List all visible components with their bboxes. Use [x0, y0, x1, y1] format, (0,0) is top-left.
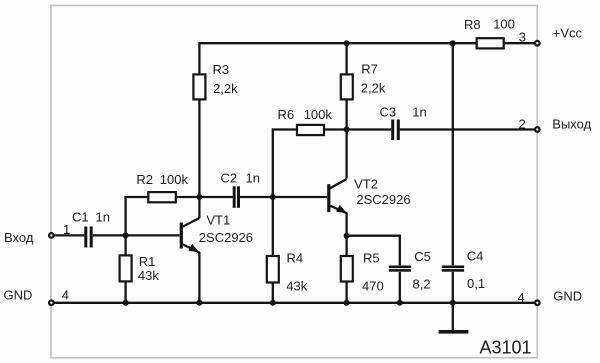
pin 2 terminal circle	[535, 127, 540, 132]
svg-text:R4: R4	[287, 251, 304, 266]
junction dot R5 ground	[344, 300, 350, 306]
junction dot R3/R2/C2 collector node	[196, 194, 202, 200]
resistor R6	[297, 125, 324, 135]
junction dot R4 ground	[270, 300, 276, 306]
svg-text:C3: C3	[380, 104, 397, 119]
svg-text:2SC2926: 2SC2926	[199, 230, 253, 245]
wire: R1 bias vertical	[124, 196, 126, 303]
pin 4 left terminal circle	[49, 301, 54, 306]
wire: C4 branch from Vcc rail	[452, 42, 454, 265]
junction dot R1 ground	[123, 300, 129, 306]
capacitor C4	[442, 266, 464, 272]
resistor R5	[341, 256, 353, 282]
wire: GND bottom rail	[51, 302, 537, 304]
wire: C5 bottom lead	[399, 272, 401, 303]
wire: +Vcc top rail	[199, 42, 537, 44]
wire: VT1 emitter vertical	[198, 252, 200, 303]
pin 3 terminal circle	[535, 41, 540, 46]
svg-text:R6: R6	[278, 107, 295, 122]
pin 1 terminal circle	[49, 233, 54, 238]
junction dot C4 ground	[450, 300, 456, 306]
svg-text:2,2k: 2,2k	[361, 81, 386, 96]
junction dot R7 top rail	[344, 40, 350, 46]
capacitor C5	[389, 266, 411, 272]
svg-text:8,2: 8,2	[413, 277, 431, 292]
svg-text:R1: R1	[139, 254, 156, 269]
wire: emitter to C5 jog	[347, 236, 400, 266]
svg-text:R3: R3	[213, 62, 230, 77]
svg-text:1n: 1n	[246, 171, 260, 186]
svg-text:C5: C5	[414, 249, 431, 264]
resistor R4	[267, 256, 279, 283]
svg-text:VT2: VT2	[354, 177, 378, 192]
svg-text:R8: R8	[464, 17, 481, 32]
svg-text:100k: 100k	[160, 172, 189, 187]
svg-text:GND: GND	[4, 288, 33, 303]
capacitor C3	[391, 120, 400, 141]
svg-text:C1: C1	[72, 209, 89, 224]
transistor VT1	[180, 218, 200, 253]
junction dot input/R1/R2 node	[123, 232, 129, 238]
junction dot VT1 emitter ground	[196, 300, 202, 306]
svg-text:1: 1	[63, 222, 70, 237]
wire: VT2 emitter vertical and R5 branch	[345, 213, 347, 303]
svg-text:Вход: Вход	[4, 230, 34, 245]
wire: C2 coupling line to VT2 base	[199, 196, 327, 198]
ground symbol	[439, 330, 469, 334]
svg-text:100: 100	[493, 16, 515, 31]
junction dot C2/R4/R6 base node	[270, 194, 276, 200]
resistor R3	[193, 74, 205, 99]
junction dot R7/R6/C3 collector node	[344, 127, 350, 133]
svg-text:Выход: Выход	[552, 117, 591, 132]
pin 4 right terminal circle	[535, 301, 540, 306]
svg-text:C2: C2	[221, 171, 238, 186]
transistor VT2	[327, 179, 347, 213]
svg-text:1n: 1n	[96, 209, 110, 224]
junction dot R8/C4 top rail	[450, 40, 456, 46]
wire: input net horizontal	[51, 234, 180, 236]
wire: C4 bottom lead to ground symbol	[452, 272, 454, 331]
junction dot VT2 emitter/R5/C5 node	[344, 233, 350, 239]
svg-text:1n: 1n	[412, 104, 426, 119]
svg-text:R5: R5	[363, 251, 380, 266]
svg-text:+Vcc: +Vcc	[553, 26, 583, 41]
wire: R2 feedback line	[126, 196, 200, 198]
svg-text:0,1: 0,1	[467, 276, 485, 291]
svg-text:VT1: VT1	[206, 212, 230, 227]
resistor R2	[148, 192, 176, 202]
wire: collector node to C3 and output	[324, 128, 537, 130]
svg-text:4: 4	[62, 288, 69, 303]
svg-text:100k: 100k	[304, 107, 333, 122]
resistor R8	[477, 38, 504, 48]
svg-text:2: 2	[519, 116, 526, 131]
svg-text:4: 4	[518, 290, 525, 305]
wire: R4 bias vertical	[272, 196, 274, 303]
wire: R7 collector branch vertical	[345, 42, 347, 178]
resistor R1	[120, 255, 132, 281]
resistor R7	[341, 74, 353, 99]
wire: R6 feedback left vertical	[273, 130, 297, 198]
svg-text:470: 470	[362, 279, 384, 294]
junction dot C5 ground	[397, 300, 403, 306]
capacitor C1	[84, 227, 92, 248]
svg-text:2SC2926: 2SC2926	[356, 192, 410, 207]
svg-text:2,2k: 2,2k	[213, 81, 238, 96]
svg-text:43k: 43k	[138, 268, 159, 283]
svg-text:R7: R7	[361, 62, 378, 77]
svg-text:43k: 43k	[286, 279, 307, 294]
svg-text:А3101: А3101	[480, 338, 532, 358]
capacitor C2	[233, 186, 240, 208]
svg-text:GND: GND	[553, 289, 582, 304]
svg-text:R2: R2	[136, 172, 153, 187]
wire: R3 collector branch vertical	[198, 42, 200, 218]
svg-text:C4: C4	[467, 249, 484, 264]
IC boundary A3101 box	[51, 6, 537, 358]
svg-text:3: 3	[519, 29, 526, 44]
